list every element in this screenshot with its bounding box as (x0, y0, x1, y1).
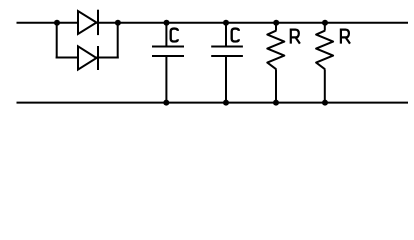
wire: bottom return rail (17, 102, 409, 104)
wire: C2 bottom lead (225, 57, 227, 103)
capacitor C1 (152, 23, 184, 103)
R1 zigzag body (267, 31, 284, 70)
node: R2 junction on bottom rail (322, 100, 328, 106)
node: R1 junction on bottom rail (273, 100, 279, 106)
wire: C1 bottom lead (165, 57, 167, 103)
capacitor C2 (211, 23, 243, 103)
wire: R1 top lead (275, 23, 277, 31)
node: R1 junction on top rail (273, 20, 279, 26)
C2 bottom plate (211, 55, 243, 57)
wire: top supply rail (17, 22, 409, 24)
node: C2 junction on bottom rail (223, 100, 229, 106)
C1 top plate (152, 46, 184, 48)
wire: C1 top lead (165, 23, 167, 46)
wire: R2 bottom lead (324, 69, 326, 102)
wire: R1 bottom lead (275, 69, 277, 102)
node: R2 junction on top rail (322, 20, 328, 26)
wire: R2 top lead (324, 23, 326, 31)
value label R (for R1) (291, 30, 300, 44)
wire: C2 top lead (225, 23, 227, 46)
node: C1 junction on bottom rail (163, 100, 169, 106)
node: diode branch right junction on top rail (115, 20, 121, 26)
wire: diode branch right vertical drop (117, 23, 119, 59)
R2 zigzag body (316, 31, 333, 70)
node: C2 junction on top rail (223, 20, 229, 26)
resistor R2 (316, 23, 333, 103)
wire: lower diode branch horizontal (56, 57, 119, 59)
wire: diode branch left vertical drop (56, 23, 58, 59)
C1 bottom plate (152, 55, 184, 57)
value label C (for C2) (232, 29, 239, 42)
value label C (for C1) (171, 29, 178, 42)
node: C1 junction on top rail (164, 20, 170, 26)
resistor R1 (267, 23, 284, 103)
diode D1 (top, in series with top rail, anode left) (78, 10, 98, 35)
diode D2 (parallel lower branch, anode left) (78, 46, 98, 70)
node: diode branch left junction on top rail (54, 20, 60, 26)
C2 top plate (211, 46, 243, 48)
value label R (for R2) (341, 30, 350, 44)
